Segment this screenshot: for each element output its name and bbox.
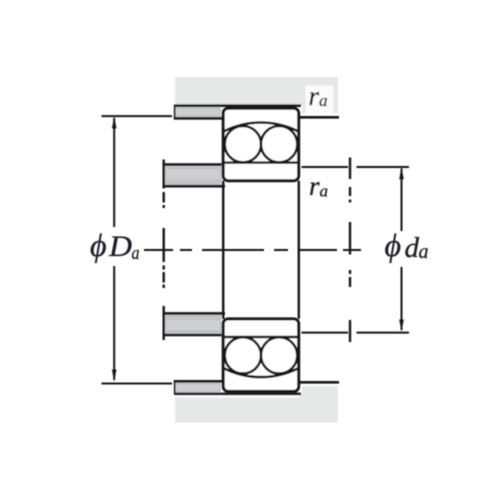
ra label box top xyxy=(306,86,334,114)
bottom half of section view (mirror) xyxy=(102,250,410,423)
svg-text:ϕ: ϕ xyxy=(90,227,107,263)
white gap between bottom bore line and housing block xyxy=(172,395,300,397)
Da dimension line xyxy=(113,118,115,380)
svg-text:a: a xyxy=(132,243,140,264)
svg-text:r: r xyxy=(309,81,320,111)
Da arrow up xyxy=(112,117,117,129)
svg-text:a: a xyxy=(320,182,329,201)
svg-text:D: D xyxy=(108,230,132,263)
shaft shoulder phantom line (right, x=350) xyxy=(349,158,351,343)
top half of section view xyxy=(102,77,410,250)
svg-text:r: r xyxy=(309,171,320,201)
da arrow up xyxy=(399,167,404,179)
da dimension line xyxy=(401,169,403,331)
svg-text:a: a xyxy=(419,241,429,263)
svg-text:a: a xyxy=(319,91,328,110)
Da arrow down xyxy=(112,370,117,382)
svg-text:d: d xyxy=(405,232,420,264)
center axis dash-dot line xyxy=(144,249,361,251)
shoulder face phantom line (left, x=163.7) xyxy=(162,160,164,341)
svg-text:ϕ: ϕ xyxy=(385,227,402,263)
da arrow down xyxy=(399,320,404,332)
